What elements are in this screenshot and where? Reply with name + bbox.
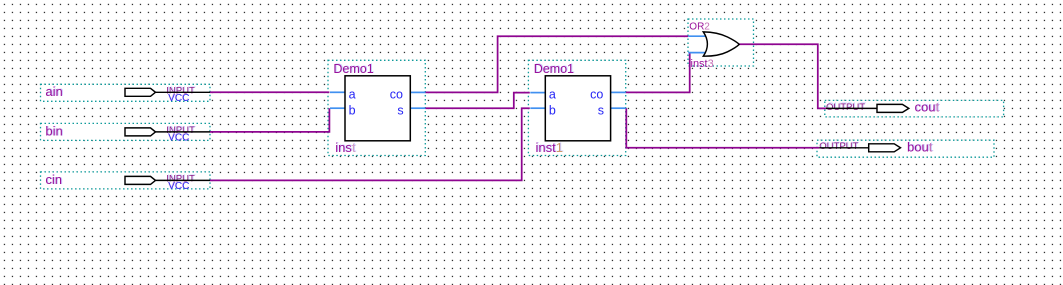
svg-text:inst1: inst1 [536,140,563,155]
wire U1.s to U2.a [426,93,530,109]
pin stub U2.a [530,92,546,94]
svg-text:bin: bin [45,124,62,139]
pin stub U2.s [611,107,626,109]
svg-text:OUTPUT: OUTPUT [826,102,865,113]
output pin cout selection box [825,100,1004,117]
or-gate OR2 (inst3) [688,21,739,70]
svg-text:co: co [590,88,603,102]
svg-text:a: a [549,88,556,102]
svg-text:s: s [598,104,604,118]
wire bin to U1.b [210,108,329,132]
wire U1.co to OR2 input 1 [426,36,689,92]
svg-text:OR2: OR2 [689,21,710,32]
svg-text:b: b [549,104,556,118]
input pin bin selection box [41,123,211,140]
wire OR2 output to cout [739,44,826,108]
svg-text:VCC: VCC [168,181,189,192]
pin stub U2.b [530,107,546,109]
wire U2.s to bout [626,108,819,148]
output pin bout [819,139,933,154]
pin stub OR2 input 2 [688,52,706,54]
output pin bout selection box [817,140,994,157]
wire U2.co to OR2 input 2 [626,53,690,93]
svg-text:co: co [390,88,403,102]
svg-text:inst: inst [335,140,356,155]
input pin bin [45,123,210,143]
svg-text:cin: cin [45,172,62,187]
block U2 Demo1 (inst1) [530,62,625,155]
svg-text:OUTPUT: OUTPUT [819,141,858,152]
svg-text:bout: bout [907,140,933,155]
svg-text:VCC: VCC [168,133,189,144]
svg-text:s: s [397,104,403,118]
block U1 Demo1 (inst) [330,62,426,155]
svg-text:VCC: VCC [168,93,189,104]
block U1 selection box [328,60,425,155]
pin stub OR2 input 1 [688,35,706,37]
input pin ain selection box [41,84,211,101]
wire ain to U1.a [210,91,329,93]
svg-text:a: a [349,88,356,102]
wire cin to U2.b [210,108,530,180]
svg-text:b: b [349,104,356,118]
pin stub U1.s [410,107,425,109]
input pin cin selection box [41,172,211,189]
pin stub U2.co [611,91,626,93]
svg-text:Demo1: Demo1 [534,62,574,76]
pin stub U1.co [410,91,425,93]
pin stub U1.b [330,107,346,109]
svg-text:ain: ain [45,84,62,99]
output pin cout [826,99,940,114]
svg-text:inst3: inst3 [691,58,714,70]
svg-text:Demo1: Demo1 [333,62,373,76]
svg-text:cout: cout [915,100,940,115]
input pin ain [45,84,210,104]
pin stub U1.a [330,91,346,93]
block U2 selection box [528,60,625,155]
or-gate OR2 selection box [688,19,754,66]
input pin cin [45,172,210,192]
